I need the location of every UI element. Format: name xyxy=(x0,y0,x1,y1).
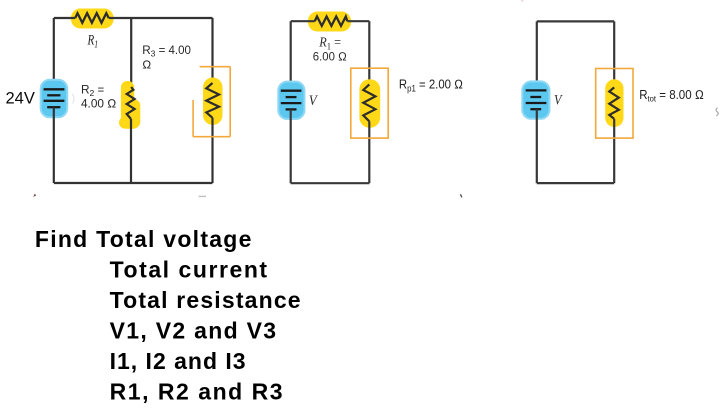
wire: circuit2 top-left segment xyxy=(291,20,315,22)
svg-text:R1: R1 xyxy=(87,32,98,50)
wire: circuit1 left side upper xyxy=(53,18,55,89)
battery 24V highlight xyxy=(41,80,67,118)
wire: circuit2 top-right segment xyxy=(347,20,369,22)
wire: circuit2 bottom xyxy=(291,182,370,184)
svg-text:V: V xyxy=(309,93,319,109)
stray faint arc near battery 24V xyxy=(72,94,74,104)
wire: circuit1 middle branch lower xyxy=(130,119,132,183)
battery V (circuit3) highlight xyxy=(522,81,549,118)
wire: circuit2 right side lower xyxy=(368,121,370,183)
svg-text:Ω: Ω xyxy=(142,59,151,72)
wire: circuit1 left side lower xyxy=(53,107,55,183)
svg-text:I1, I2 and I3: I1, I2 and I3 xyxy=(110,348,246,374)
stray gray dash below circuit1 right xyxy=(199,195,207,197)
wire: circuit3 bottom xyxy=(537,182,614,184)
annotation box around R3 (orange, hand-drawn open rectangle) xyxy=(193,67,230,137)
wire: circuit2 left side lower xyxy=(290,109,292,183)
wire: circuit2 left side upper xyxy=(290,21,292,91)
wire: circuit3 left side upper xyxy=(536,21,538,90)
highlight over resistor Rp1 xyxy=(359,79,380,128)
resistor R3 xyxy=(206,83,219,118)
resistor R1 (circuit2) xyxy=(315,17,348,26)
wire: circuit1 bottom xyxy=(54,182,213,184)
annotation box around Rp1 (orange rectangle) xyxy=(351,68,388,138)
annotation box around Rtot (orange rectangle) xyxy=(596,69,633,139)
highlight over resistor R2 (hand-drawn) xyxy=(119,81,140,129)
battery V (circuit3) plates xyxy=(526,90,547,109)
svg-text:R3 = 4.00: R3 = 4.00 xyxy=(142,44,191,59)
wire: circuit3 left side lower xyxy=(536,109,538,183)
svg-text:6.00 Ω: 6.00 Ω xyxy=(313,50,347,64)
battery V (circuit2) plates xyxy=(281,91,302,110)
svg-text:Rtot = 8.00 Ω: Rtot = 8.00 Ω xyxy=(639,87,704,104)
svg-text:Find Total voltage: Find Total voltage xyxy=(35,226,252,252)
highlight over resistor R1 xyxy=(71,9,114,29)
svg-text:24V: 24V xyxy=(6,90,35,108)
svg-text:4.00 Ω: 4.00 Ω xyxy=(81,96,116,110)
stray faint dot top xyxy=(521,0,523,2)
highlight over resistor R3 xyxy=(203,78,223,126)
highlight over resistor R1 (circuit2) xyxy=(308,12,351,32)
resistor R2 xyxy=(127,87,135,119)
svg-text:V1, V2 and V3: V1, V2 and V3 xyxy=(110,317,277,343)
svg-text:V: V xyxy=(554,93,563,109)
svg-text:R1, R2 and R3: R1, R2 and R3 xyxy=(110,378,283,404)
highlight over resistor Rtot xyxy=(605,79,623,127)
resistor Rp1 xyxy=(363,84,375,121)
wire: circuit1 top-right segment xyxy=(109,17,213,19)
wire: circuit3 right side upper xyxy=(613,21,615,87)
wire: circuit1 top-left segment xyxy=(54,17,75,19)
wire: circuit1 middle branch upper xyxy=(130,18,132,87)
resistor R1 xyxy=(75,13,109,23)
battery 24V plates xyxy=(44,89,65,107)
stray pen mark below circuit1 left xyxy=(33,194,36,197)
wire: circuit1 right side lower xyxy=(211,118,213,183)
resistor Rtot xyxy=(609,87,619,119)
stray tick below circuit2 xyxy=(460,194,462,197)
stray squiggle right of Rtot label xyxy=(716,108,718,116)
svg-text:Rp1 = 2.00 Ω: Rp1 = 2.00 Ω xyxy=(399,77,463,94)
wire: circuit3 top xyxy=(537,20,614,22)
svg-text:Total resistance: Total resistance xyxy=(110,287,301,313)
svg-text:Total current: Total current xyxy=(110,257,268,283)
wire: circuit3 right side lower xyxy=(613,119,615,183)
wire: circuit1 right side upper xyxy=(211,18,213,83)
battery V (circuit2) highlight xyxy=(278,82,304,119)
wire: circuit2 right side upper xyxy=(368,21,370,84)
